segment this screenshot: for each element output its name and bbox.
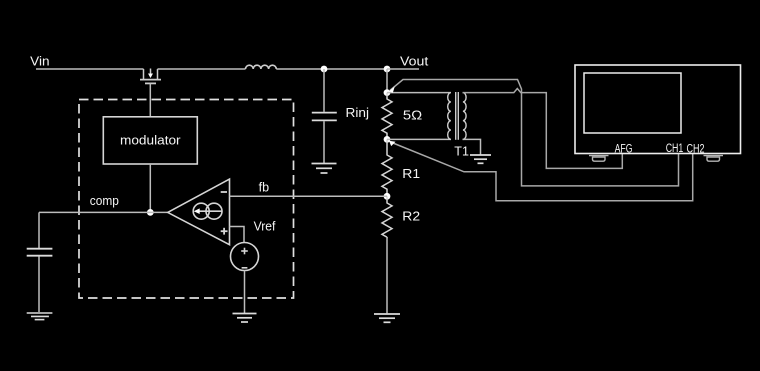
svg-text:Rinj: Rinj [346, 105, 370, 120]
svg-text:R2: R2 [402, 209, 420, 224]
svg-text:comp: comp [90, 193, 119, 208]
ground [233, 314, 257, 323]
connector BNC left [589, 156, 609, 162]
ground [312, 164, 337, 174]
node Vout [384, 66, 391, 73]
node 5ohm top [384, 89, 391, 96]
svg-text:Vout: Vout [400, 53, 429, 68]
wire CH1 probe from Vout node [390, 80, 679, 186]
wire [386, 69, 388, 93]
wire comp to compensation capacitor [38, 212, 40, 248]
wire MOSFET gate to modulator [149, 83, 151, 116]
wire [387, 138, 451, 140]
wire comp rail [39, 211, 168, 213]
svg-text:AFG: AFG [615, 143, 633, 155]
node comp [147, 209, 154, 216]
transformer T1 [448, 92, 466, 140]
svg-text:Vin: Vin [30, 53, 49, 68]
inductor L1 [246, 65, 277, 69]
connector BNC right [704, 156, 724, 162]
svg-text:CH1: CH1 [666, 143, 684, 155]
ground [470, 155, 491, 163]
op-amp U1 (OTA error amplifier) [168, 179, 230, 245]
resistor R2 [382, 196, 392, 237]
transistor Q1 (P-MOSFET switch) [140, 69, 161, 84]
wire [158, 68, 246, 70]
resistor R1 [382, 139, 392, 196]
wire [386, 237, 388, 313]
svg-text:modulator: modulator [120, 133, 181, 148]
voltage source Vref [231, 243, 259, 271]
wire [38, 257, 40, 313]
ground [374, 314, 400, 322]
oscilloscope / AFG instrument box [575, 65, 741, 154]
resistor 5ohm [382, 93, 392, 140]
wire [463, 139, 481, 154]
wire [323, 121, 325, 163]
node between 5ohm and R1 [384, 136, 391, 143]
wire [387, 92, 451, 94]
node Rinj tap [321, 66, 328, 73]
node fb divider tap [384, 193, 391, 200]
wire fb [230, 195, 388, 197]
capacitor Rinj [312, 113, 337, 121]
wire [36, 68, 144, 70]
wire AFG drive to transformer secondary (with hop) [463, 89, 623, 169]
wire [244, 271, 246, 314]
svg-text:T1: T1 [454, 144, 469, 159]
ground [27, 313, 53, 320]
wire CH2 probe from divider node [391, 142, 693, 201]
wire op-amp + input to Vref [230, 227, 245, 243]
wire [387, 68, 419, 70]
dashed box: control IC [79, 100, 294, 299]
modulator block [103, 117, 197, 164]
svg-text:5Ω: 5Ω [403, 107, 423, 122]
svg-text:CH2: CH2 [687, 143, 705, 155]
instrument screen [584, 73, 681, 133]
svg-text:fb: fb [259, 181, 270, 195]
wire [276, 68, 387, 70]
wire [323, 69, 325, 112]
svg-text:Vref: Vref [254, 218, 276, 233]
capacitor comp compensation [27, 249, 53, 256]
wire modulator output to comp node [149, 164, 151, 212]
svg-text:R1: R1 [402, 166, 420, 181]
